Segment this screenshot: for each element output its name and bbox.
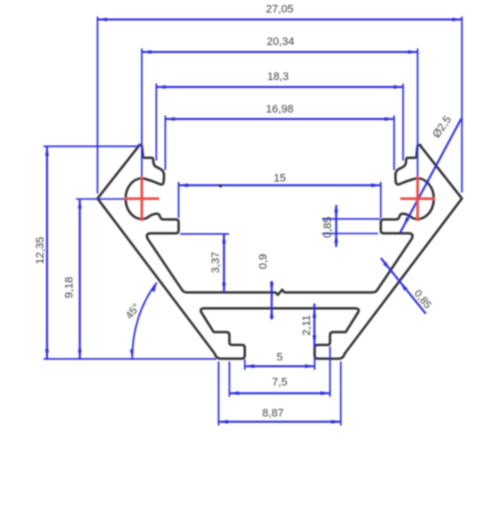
svg-text:27,05: 27,05 <box>266 3 294 15</box>
svg-text:18,3: 18,3 <box>267 71 288 83</box>
svg-text:3,37: 3,37 <box>210 252 222 273</box>
svg-text:0,85: 0,85 <box>322 217 334 238</box>
svg-text:9,18: 9,18 <box>63 277 75 298</box>
svg-text:20,34: 20,34 <box>267 36 295 48</box>
svg-text:Ø2,5: Ø2,5 <box>431 114 455 140</box>
svg-text:0,9: 0,9 <box>258 254 270 269</box>
svg-text:15: 15 <box>274 172 286 184</box>
svg-text:2,11: 2,11 <box>301 315 313 336</box>
svg-text:16,98: 16,98 <box>266 103 294 115</box>
svg-text:5: 5 <box>277 351 283 363</box>
svg-text:8,87: 8,87 <box>262 407 283 419</box>
svg-text:12,35: 12,35 <box>34 237 46 265</box>
svg-text:7,5: 7,5 <box>272 376 287 388</box>
svg-text:45°: 45° <box>123 302 142 322</box>
